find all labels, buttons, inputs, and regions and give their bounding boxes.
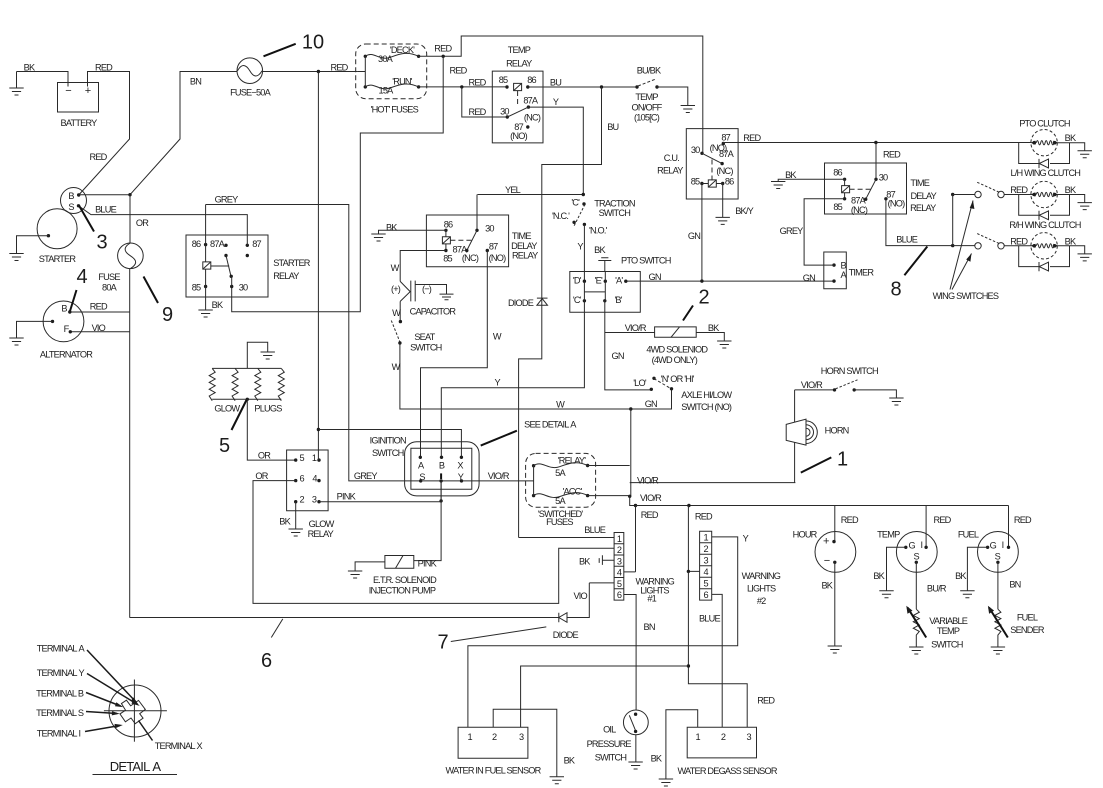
svg-text:+: + [85, 85, 91, 97]
svg-text:GN: GN [688, 231, 700, 241]
svg-text:B: B [439, 460, 445, 470]
svg-text:2: 2 [299, 495, 304, 505]
svg-text:BATTERY: BATTERY [61, 118, 98, 128]
svg-text:86: 86 [833, 167, 842, 177]
svg-text:TIME: TIME [910, 178, 929, 188]
svg-text:C.U.: C.U. [664, 153, 679, 163]
svg-text:'RELAY': 'RELAY' [558, 455, 586, 465]
svg-text:TIME: TIME [512, 231, 531, 241]
svg-text:VIO/R: VIO/R [801, 380, 823, 390]
svg-text:3: 3 [703, 556, 708, 566]
svg-text:SWITCH: SWITCH [372, 448, 404, 458]
svg-text:'N.O.': 'N.O.' [589, 225, 608, 235]
svg-text:BN: BN [644, 622, 655, 632]
svg-text:3: 3 [312, 495, 317, 505]
svg-text:30: 30 [239, 282, 248, 292]
svg-text:RED: RED [883, 150, 901, 160]
svg-text:PRESSURE: PRESSURE [587, 739, 632, 749]
svg-text:RED: RED [841, 515, 859, 525]
svg-text:RED: RED [641, 510, 659, 520]
svg-text:9: 9 [162, 304, 173, 326]
svg-text:GREY: GREY [215, 194, 239, 204]
svg-text:30A: 30A [378, 54, 394, 64]
svg-text:W: W [392, 308, 401, 318]
svg-text:(NO): (NO) [510, 131, 527, 141]
svg-text:Y: Y [577, 241, 583, 251]
svg-text:VIO/R: VIO/R [488, 471, 510, 481]
svg-text:3: 3 [519, 732, 524, 742]
svg-text:DELAY: DELAY [910, 191, 936, 201]
svg-text:GLOW: GLOW [214, 403, 240, 413]
svg-text:BK: BK [708, 323, 720, 333]
svg-text:E.T.R. SOLENOID: E.T.R. SOLENOID [373, 575, 437, 585]
svg-text:BK: BK [651, 754, 663, 764]
svg-text:GN: GN [803, 273, 815, 283]
svg-text:G: G [990, 541, 997, 551]
svg-text:10: 10 [302, 32, 324, 54]
svg-text:2: 2 [721, 732, 726, 742]
svg-text:85: 85 [443, 253, 452, 263]
svg-text:TERMINAL I: TERMINAL I [37, 729, 81, 739]
svg-text:PINK: PINK [418, 559, 438, 569]
svg-text:(4WD ONLY): (4WD ONLY) [652, 355, 698, 365]
svg-text:85: 85 [192, 282, 201, 292]
svg-text:85: 85 [833, 202, 842, 212]
svg-text:5A: 5A [555, 496, 566, 506]
svg-text:BU/BK: BU/BK [637, 66, 662, 76]
svg-text:B: B [61, 304, 67, 314]
svg-text:87: 87 [252, 239, 261, 249]
svg-text:RED: RED [434, 44, 452, 54]
svg-text:BK: BK [386, 223, 398, 233]
svg-text:3: 3 [617, 556, 622, 566]
svg-text:SWITCH: SWITCH [595, 752, 627, 762]
svg-text:RED: RED [743, 133, 761, 143]
svg-text:#1: #1 [647, 593, 656, 603]
svg-text:'LO': 'LO' [633, 378, 647, 388]
svg-text:INJECTION PUMP: INJECTION PUMP [369, 586, 436, 596]
svg-text:3: 3 [746, 732, 751, 742]
svg-text:RED: RED [934, 515, 952, 525]
svg-text:IGINITION: IGINITION [370, 436, 406, 446]
svg-text:TERMINAL A: TERMINAL A [37, 644, 86, 654]
svg-text:AXLE HI/LOW: AXLE HI/LOW [681, 390, 732, 400]
svg-text:WING SWITCHES: WING SWITCHES [933, 291, 999, 301]
svg-text:GREY: GREY [354, 471, 378, 481]
svg-text:BU: BU [550, 77, 561, 87]
svg-text:OIL: OIL [603, 724, 616, 734]
svg-text:Y: Y [553, 97, 559, 107]
svg-text:+: + [823, 536, 829, 548]
svg-text:OR: OR [136, 218, 149, 228]
svg-text:FUSES: FUSES [546, 517, 573, 527]
svg-text:5: 5 [219, 435, 230, 457]
svg-text:RED: RED [90, 152, 108, 162]
svg-text:SWITCH: SWITCH [599, 208, 631, 218]
svg-text:SWITCH: SWITCH [931, 639, 963, 649]
svg-text:BU: BU [607, 122, 618, 132]
svg-text:S: S [68, 202, 74, 212]
svg-text:OR: OR [255, 471, 268, 481]
svg-text:HOUR: HOUR [793, 530, 818, 540]
svg-text:'D': 'D' [573, 276, 582, 286]
svg-text:SWITCH: SWITCH [410, 342, 442, 352]
svg-text:RELAY: RELAY [308, 529, 334, 539]
svg-text:X: X [457, 460, 463, 470]
svg-text:RED: RED [1014, 515, 1032, 525]
svg-text:RELAY: RELAY [273, 271, 299, 281]
svg-text:VIO/R: VIO/R [625, 323, 647, 333]
svg-text:R/H WING CLUTCH: R/H WING CLUTCH [1009, 220, 1080, 230]
svg-text:BLUE: BLUE [896, 235, 917, 245]
svg-text:2: 2 [703, 544, 708, 554]
svg-text:TEMP: TEMP [877, 530, 900, 540]
svg-text:4WD SOLENIOD: 4WD SOLENIOD [646, 344, 708, 354]
svg-text:PTO SWITCH: PTO SWITCH [621, 256, 671, 266]
svg-text:#2: #2 [757, 596, 766, 606]
svg-text:W: W [391, 263, 400, 273]
svg-text:SENDER: SENDER [1010, 625, 1045, 635]
svg-text:5: 5 [703, 579, 708, 589]
svg-text:BLUE: BLUE [584, 525, 605, 535]
svg-text:TEMP: TEMP [937, 626, 960, 636]
svg-text:5A: 5A [555, 468, 566, 478]
svg-text:ALTERNATOR: ALTERNATOR [40, 349, 93, 359]
svg-text:BK: BK [1065, 185, 1077, 195]
svg-text:'RUN': 'RUN' [392, 76, 412, 86]
svg-text:6: 6 [703, 590, 708, 600]
svg-text:PINK: PINK [337, 492, 357, 502]
svg-text:S: S [914, 551, 920, 561]
svg-text:FUEL: FUEL [1017, 612, 1038, 622]
svg-text:B: B [841, 260, 847, 270]
svg-text:SEAT: SEAT [414, 332, 435, 342]
svg-text:RELAY: RELAY [657, 165, 683, 175]
svg-text:BK: BK [212, 300, 224, 310]
svg-text:TEMP: TEMP [508, 45, 531, 55]
svg-text:FUSE: FUSE [98, 272, 120, 282]
svg-text:SWITCH (NO): SWITCH (NO) [681, 402, 732, 412]
svg-text:86: 86 [192, 239, 201, 249]
svg-text:HORN SWITCH: HORN SWITCH [821, 366, 878, 376]
svg-text:5: 5 [617, 579, 622, 589]
svg-text:1: 1 [617, 534, 622, 544]
svg-text:TERMINAL X: TERMINAL X [155, 741, 203, 751]
svg-text:OR: OR [258, 450, 271, 460]
svg-text:87A: 87A [210, 239, 226, 249]
svg-text:1: 1 [312, 453, 317, 463]
svg-text:GN: GN [649, 272, 661, 282]
svg-text:PLUGS: PLUGS [254, 403, 282, 413]
svg-text:GN: GN [645, 399, 657, 409]
svg-text:(NO): (NO) [888, 199, 905, 209]
svg-text:87A: 87A [523, 96, 539, 106]
svg-text:(NC): (NC) [851, 205, 868, 215]
svg-text:86: 86 [444, 220, 453, 230]
svg-text:80A: 80A [102, 283, 118, 293]
svg-text:GLOW: GLOW [309, 519, 335, 529]
svg-text:CAPACITOR: CAPACITOR [410, 307, 457, 317]
svg-text:30: 30 [485, 223, 494, 233]
svg-text:30: 30 [879, 172, 888, 182]
svg-text:PTO CLUTCH: PTO CLUTCH [1019, 119, 1070, 129]
svg-text:RED: RED [1010, 237, 1028, 247]
svg-text:4: 4 [703, 567, 708, 577]
svg-text:BK: BK [279, 516, 291, 526]
svg-text:RED: RED [757, 696, 775, 706]
svg-text:87: 87 [721, 132, 730, 142]
svg-text:VIO/R: VIO/R [637, 476, 659, 486]
svg-text:86: 86 [725, 176, 734, 186]
svg-text:RED: RED [1010, 185, 1028, 195]
svg-text:BK: BK [579, 557, 591, 567]
svg-text:TRACTION: TRACTION [594, 198, 635, 208]
svg-text:RED: RED [331, 62, 349, 72]
svg-text:30: 30 [691, 145, 700, 155]
svg-text:1: 1 [703, 533, 708, 543]
svg-text:VIO: VIO [573, 591, 587, 601]
svg-text:(105[C): (105[C) [634, 113, 660, 123]
svg-text:BK/Y: BK/Y [735, 206, 753, 216]
svg-text:Y: Y [743, 533, 749, 543]
svg-text:RED: RED [695, 512, 713, 522]
svg-text:(NC): (NC) [524, 113, 541, 123]
svg-text:15A: 15A [379, 86, 395, 96]
svg-text:WATER IN FUEL SENSOR: WATER IN FUEL SENSOR [446, 766, 542, 776]
svg-text:−: − [65, 85, 71, 97]
svg-text:87A: 87A [851, 195, 867, 205]
svg-text:8: 8 [890, 279, 901, 301]
svg-text:'B': 'B' [614, 295, 622, 305]
svg-text:ON/OFF: ON/OFF [632, 103, 663, 113]
svg-text:WARNING: WARNING [742, 571, 781, 581]
svg-text:S: S [995, 551, 1001, 561]
svg-text:'DECK': 'DECK' [390, 45, 415, 55]
svg-text:Y: Y [495, 378, 501, 388]
svg-text:DETAIL A: DETAIL A [110, 759, 162, 774]
svg-text:6: 6 [299, 474, 304, 484]
svg-text:W: W [392, 362, 401, 372]
svg-text:GREY: GREY [780, 226, 804, 236]
svg-text:5: 5 [299, 453, 304, 463]
svg-text:RELAY: RELAY [506, 59, 532, 69]
svg-text:(+): (+) [391, 284, 401, 294]
svg-text:TERMINAL B: TERMINAL B [36, 689, 84, 699]
svg-text:RED: RED [469, 77, 487, 87]
svg-text:2: 2 [492, 732, 497, 742]
svg-text:6: 6 [617, 590, 622, 600]
svg-text:−: − [824, 555, 830, 567]
svg-text:STARTER: STARTER [273, 258, 311, 268]
svg-text:1: 1 [468, 732, 473, 742]
svg-text:85: 85 [691, 176, 700, 186]
svg-text:B: B [68, 191, 74, 201]
svg-text:BK: BK [594, 245, 606, 255]
svg-text:30: 30 [500, 106, 509, 116]
svg-text:TERMINAL Y: TERMINAL Y [37, 668, 85, 678]
svg-text:W: W [556, 399, 565, 409]
svg-text:LIGHTS: LIGHTS [747, 583, 776, 593]
svg-text:TERMINAL S: TERMINAL S [36, 708, 84, 718]
svg-text:HORN: HORN [825, 425, 849, 435]
svg-text:1: 1 [696, 732, 701, 742]
svg-text:BLUE: BLUE [95, 205, 116, 215]
svg-text:RED: RED [469, 107, 487, 117]
svg-text:DIODE: DIODE [553, 630, 579, 640]
svg-text:2: 2 [698, 287, 709, 309]
svg-text:'HOT' FUSES: 'HOT' FUSES [371, 105, 419, 115]
svg-text:BK: BK [821, 581, 833, 591]
svg-text:VARIABLE: VARIABLE [929, 616, 968, 626]
svg-text:BN: BN [1009, 580, 1020, 590]
svg-text:'C': 'C' [571, 197, 580, 207]
svg-text:6: 6 [261, 650, 272, 672]
svg-text:GN: GN [612, 351, 624, 361]
svg-text:4: 4 [617, 568, 622, 578]
svg-text:FUSE−50A: FUSE−50A [230, 88, 271, 98]
svg-text:RELAY: RELAY [910, 203, 936, 213]
svg-text:FUEL: FUEL [958, 530, 979, 540]
svg-text:'A': 'A' [615, 276, 623, 286]
svg-text:BK: BK [955, 571, 967, 581]
svg-text:87: 87 [489, 241, 498, 251]
svg-text:W: W [493, 331, 502, 341]
svg-text:BK: BK [1065, 237, 1077, 247]
svg-text:BK: BK [785, 170, 797, 180]
svg-text:3: 3 [96, 232, 107, 254]
svg-text:TIMER: TIMER [849, 268, 875, 278]
svg-text:BLUE: BLUE [699, 614, 720, 624]
svg-text:I: I [1002, 540, 1004, 550]
svg-text:1: 1 [837, 449, 848, 471]
svg-text:(NC): (NC) [716, 166, 733, 176]
svg-text:(NC): (NC) [462, 253, 479, 263]
svg-text:G: G [909, 541, 916, 551]
svg-text:WATER DEGASS SENSOR: WATER DEGASS SENSOR [678, 766, 778, 776]
svg-text:7: 7 [437, 632, 448, 654]
svg-text:87A: 87A [719, 149, 735, 159]
svg-text:RELAY: RELAY [512, 250, 538, 260]
svg-text:'N' OR 'HI': 'N' OR 'HI' [661, 374, 695, 384]
svg-text:4: 4 [312, 474, 317, 484]
svg-text:DIODE: DIODE [508, 298, 534, 308]
svg-text:I: I [921, 540, 923, 550]
svg-text:'C': 'C' [573, 295, 582, 305]
svg-text:RED: RED [90, 301, 108, 311]
svg-text:VIO: VIO [92, 323, 106, 333]
svg-text:SEE DETAIL A: SEE DETAIL A [524, 420, 577, 430]
svg-text:85: 85 [499, 75, 508, 85]
svg-text:YEL: YEL [505, 185, 521, 195]
svg-text:BK: BK [1065, 133, 1077, 143]
svg-text:BK: BK [564, 756, 576, 766]
svg-text:'ACC': 'ACC' [563, 487, 583, 497]
svg-text:BK: BK [873, 571, 885, 581]
svg-text:STARTER: STARTER [39, 254, 77, 264]
svg-text:2: 2 [617, 545, 622, 555]
svg-text:4: 4 [76, 266, 87, 288]
svg-text:BN: BN [190, 77, 201, 87]
svg-text:BU/R: BU/R [927, 583, 947, 593]
svg-text:(NO): (NO) [489, 253, 506, 263]
svg-text:VIO/R: VIO/R [640, 493, 662, 503]
svg-text:'E': 'E' [595, 276, 603, 286]
svg-text:(−): (−) [422, 284, 432, 294]
svg-text:86: 86 [527, 75, 536, 85]
svg-text:RED: RED [450, 65, 468, 75]
svg-text:L/H WING CLUTCH: L/H WING CLUTCH [1010, 168, 1080, 178]
svg-text:TEMP: TEMP [635, 92, 658, 102]
svg-text:'N.C.': 'N.C.' [552, 211, 570, 221]
